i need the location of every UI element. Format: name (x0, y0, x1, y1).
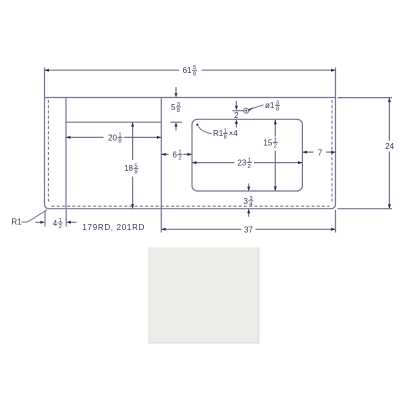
dim line 15 1/2 (274, 120, 276, 191)
dim line 61 5/8 (45, 69, 336, 71)
dim 2 stems (235, 101, 237, 128)
dim 4 1/2 extension lines (45, 210, 66, 227)
svg-text:8: 8 (177, 108, 180, 114)
arrow 23 left (192, 161, 196, 164)
arrow 23 right (298, 161, 302, 164)
faucet hole circle (244, 108, 249, 113)
svg-text:3: 3 (276, 100, 279, 106)
svg-text:5: 5 (134, 163, 137, 169)
faucet hole center dot (245, 110, 247, 112)
rounded corner bottom-left R1 (45, 204, 50, 209)
arrow 4 left (40, 221, 44, 224)
dim line 24 (388, 98, 390, 209)
svg-text:3: 3 (249, 196, 252, 202)
hidden roll-edge dashed line bottom (52, 205, 330, 207)
countertop bottom edge (50, 208, 331, 210)
svg-text:2: 2 (234, 111, 239, 120)
arrow 61 left (45, 69, 49, 72)
svg-text:5: 5 (193, 65, 196, 71)
svg-text:18: 18 (124, 164, 133, 173)
left strip line 4 1/2 (65, 98, 67, 209)
svg-text:37: 37 (244, 225, 253, 234)
dim 5 3/8 stems (175, 87, 177, 131)
svg-text:8: 8 (134, 170, 137, 176)
svg-text:8: 8 (193, 71, 196, 77)
arrow 20 left (66, 136, 70, 139)
svg-text:3: 3 (244, 197, 249, 206)
arrow 6 left (161, 153, 165, 156)
svg-text:1: 1 (224, 128, 227, 134)
extension 24 top (338, 97, 393, 99)
dim line 7 (303, 151, 336, 153)
extension right below (335, 210, 337, 233)
leader dia 1 3/8 (249, 105, 264, 110)
dim line 37 (161, 228, 335, 230)
svg-text:8: 8 (224, 135, 227, 141)
arrow 3 top (247, 187, 250, 191)
arrow 4 right (66, 221, 70, 224)
arrow 18 top (131, 122, 134, 126)
svg-text:×4: ×4 (229, 129, 239, 138)
dim line 23 1/2 (192, 162, 302, 164)
arrow 7 right (331, 151, 335, 154)
hidden roll-edge dashed line right (331, 100, 333, 202)
svg-text:5: 5 (171, 103, 176, 112)
arrow 7 left (303, 151, 307, 154)
svg-text:4: 4 (53, 219, 58, 228)
arrow 6 right (187, 153, 191, 156)
svg-text:8: 8 (276, 107, 279, 113)
hidden roll-edge dashed line left (47, 100, 49, 202)
arrow 15 bottom (274, 187, 277, 191)
svg-text:3: 3 (177, 102, 180, 108)
material swatch (148, 247, 260, 344)
svg-text:1: 1 (274, 138, 277, 144)
arrow 15 top (274, 120, 277, 124)
arrow 3 bottom (247, 209, 250, 213)
svg-text:179RD, 201RD: 179RD, 201RD (82, 223, 145, 232)
extension 24 bottom (338, 208, 393, 210)
countertop left edge with top extension (44, 68, 46, 204)
arrow 20 right (157, 136, 161, 139)
svg-text:6: 6 (173, 150, 178, 159)
backsplash line (66, 121, 161, 123)
arrow 37 left (161, 228, 165, 231)
arrow 5 top (175, 93, 178, 97)
svg-text:24: 24 (385, 142, 394, 151)
dim 3 3/4 stems (248, 184, 250, 217)
svg-text:2: 2 (248, 164, 251, 170)
arrow 5 bottom (175, 122, 178, 126)
countertop right edge with top extension (335, 68, 337, 204)
svg-text:8: 8 (118, 139, 121, 145)
sink cutout (192, 119, 302, 191)
arrow 2 top (235, 106, 238, 110)
svg-text:20: 20 (108, 133, 117, 142)
arrow 24 bottom (388, 204, 391, 208)
dim line 20 1/8 (66, 136, 161, 138)
arrow 18 bottom (131, 204, 134, 208)
sink corner radius center dot (196, 124, 198, 126)
svg-text:1: 1 (59, 218, 62, 224)
svg-text:2: 2 (274, 144, 277, 150)
dim line 6 1/2 (161, 153, 192, 155)
svg-text:2: 2 (178, 156, 181, 162)
svg-text:23: 23 (237, 159, 246, 168)
svg-text:7: 7 (318, 148, 323, 157)
backsplash line tick (171, 121, 183, 123)
svg-text:1: 1 (118, 132, 121, 138)
arrow 2 bottom (235, 120, 238, 124)
svg-text:2: 2 (59, 224, 62, 230)
rounded corner bottom-right (331, 204, 336, 209)
section line at 37in (160, 98, 162, 233)
leader R1 corner (22, 210, 48, 222)
dim line 18 5/8 (132, 122, 134, 208)
dim 4 1/2 stems (36, 221, 77, 223)
countertop top edge (45, 97, 336, 99)
svg-text:1: 1 (178, 149, 181, 155)
leader arrow at circle (249, 107, 253, 111)
arrow 24 top (388, 98, 391, 102)
leader R1 1/8 x4 (198, 126, 212, 134)
arrow 61 right (331, 69, 335, 72)
svg-text:1: 1 (248, 158, 251, 164)
arrow 37 right (331, 228, 335, 231)
svg-text:15: 15 (263, 138, 272, 147)
svg-text:ø1: ø1 (265, 101, 275, 110)
svg-text:61: 61 (183, 66, 192, 75)
faucet centerline (233, 110, 244, 112)
svg-text:R1: R1 (11, 218, 22, 227)
svg-text:R1: R1 (213, 129, 224, 138)
